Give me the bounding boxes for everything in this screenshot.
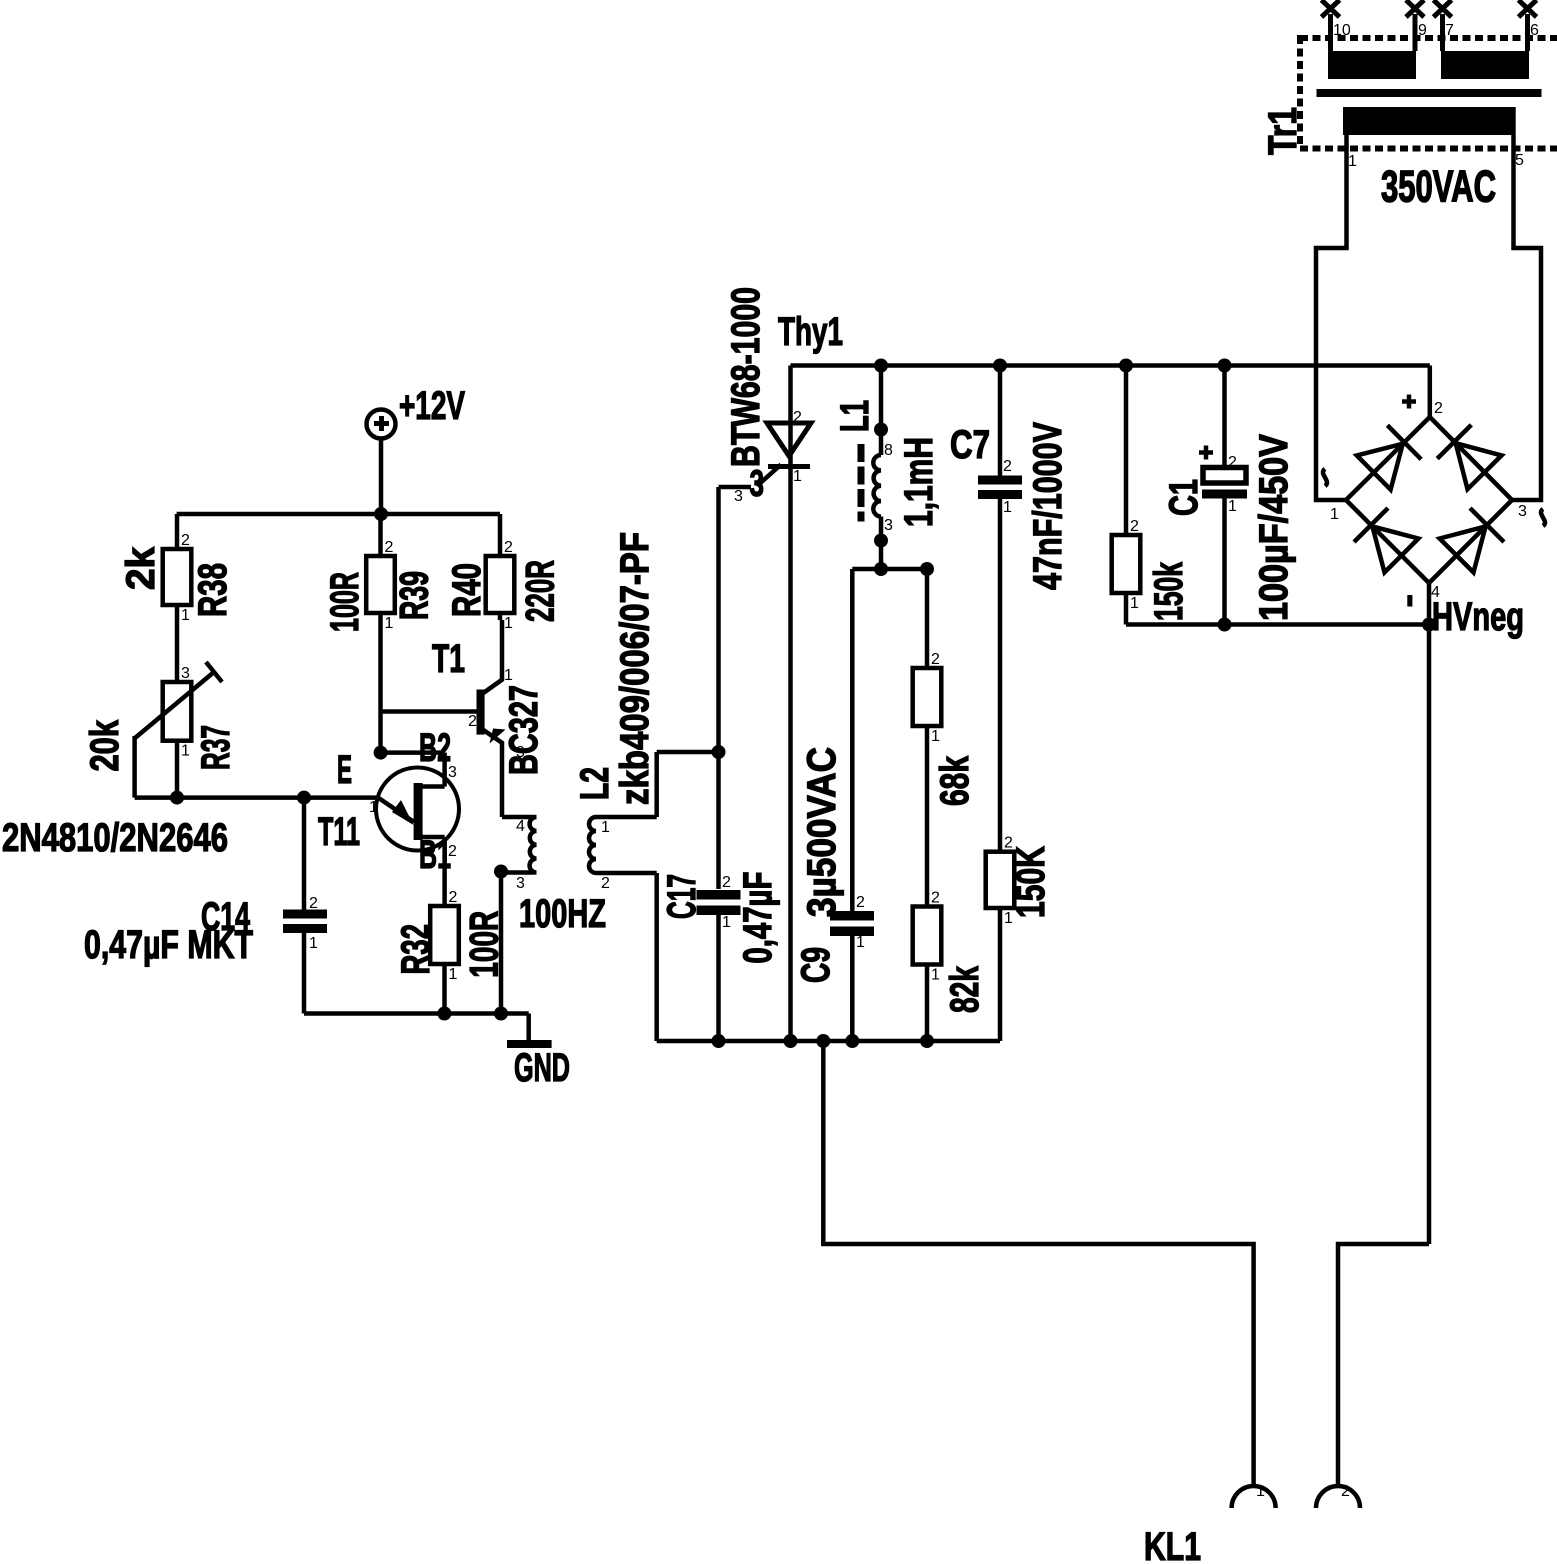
svg-text:3: 3 [884, 517, 893, 534]
svg-text:3: 3 [181, 665, 190, 682]
svg-text:0,47µF: 0,47µF [735, 872, 780, 964]
svg-text:HVneg: HVneg [1432, 594, 1524, 639]
svg-text:KL1: KL1 [1144, 1524, 1201, 1564]
svg-text:1: 1 [369, 799, 378, 816]
svg-text:2N4810/2N2646: 2N4810/2N2646 [2, 815, 228, 860]
svg-text:2: 2 [181, 532, 190, 549]
svg-text:1: 1 [1256, 1483, 1265, 1500]
svg-text:0,47µF MKT: 0,47µF MKT [84, 922, 253, 967]
svg-text:1: 1 [931, 728, 940, 745]
svg-text:C9: C9 [793, 947, 838, 983]
svg-text:2: 2 [601, 875, 610, 892]
svg-text:1: 1 [601, 819, 610, 836]
svg-text:BTW68-1000: BTW68-1000 [723, 287, 768, 467]
svg-text:3: 3 [516, 875, 525, 892]
svg-text:1: 1 [1130, 595, 1139, 612]
svg-text:2: 2 [1003, 458, 1012, 475]
svg-text:10: 10 [1333, 22, 1351, 39]
svg-text:1: 1 [722, 914, 731, 931]
svg-text:1: 1 [309, 935, 318, 952]
svg-text:BC327: BC327 [501, 685, 546, 775]
svg-text:R39: R39 [391, 571, 436, 620]
svg-text:L1: L1 [832, 400, 877, 432]
svg-text:2: 2 [793, 409, 802, 426]
svg-text:82k: 82k [942, 965, 987, 1013]
svg-text:1: 1 [504, 615, 513, 632]
svg-text:Thy1: Thy1 [778, 309, 843, 354]
svg-text:2: 2 [1130, 518, 1139, 535]
svg-text:L2: L2 [572, 767, 617, 800]
svg-text:150k: 150k [1146, 561, 1191, 621]
svg-text:2: 2 [468, 713, 477, 730]
svg-text:R40: R40 [444, 563, 489, 617]
svg-text:1: 1 [181, 743, 190, 760]
svg-text:150K: 150K [1008, 846, 1053, 918]
svg-text:1: 1 [1228, 498, 1237, 515]
svg-text:47nF/1000V: 47nF/1000V [1025, 422, 1070, 590]
svg-text:5: 5 [1515, 152, 1524, 169]
svg-text:3: 3 [516, 744, 525, 761]
svg-text:+12V: +12V [399, 383, 465, 428]
svg-text:1: 1 [1330, 506, 1339, 523]
svg-text:2: 2 [1228, 454, 1237, 471]
svg-text:1: 1 [793, 468, 802, 485]
svg-text:T1: T1 [432, 636, 465, 681]
svg-text:GND: GND [514, 1045, 570, 1090]
svg-text:2k: 2k [118, 546, 163, 590]
svg-text:zkb409/006/07-PF: zkb409/006/07-PF [612, 532, 657, 805]
svg-text:2: 2 [931, 651, 940, 668]
svg-text:1: 1 [504, 667, 513, 684]
svg-text:B2: B2 [419, 725, 451, 770]
svg-text:8: 8 [884, 442, 893, 459]
svg-text:2: 2 [931, 890, 940, 907]
svg-text:R38: R38 [190, 563, 235, 617]
svg-text:R32: R32 [393, 924, 438, 975]
svg-text:3µ500VAC: 3µ500VAC [799, 747, 844, 917]
svg-text:T11: T11 [318, 809, 360, 854]
svg-text:1: 1 [1003, 499, 1012, 516]
svg-text:2: 2 [504, 539, 513, 556]
svg-text:1,1mH: 1,1mH [896, 437, 941, 527]
svg-text:3: 3 [1518, 503, 1527, 520]
svg-text:100R: 100R [322, 572, 367, 632]
svg-text:6: 6 [1530, 22, 1539, 39]
svg-text:2: 2 [449, 889, 458, 906]
svg-text:2: 2 [1434, 400, 1443, 417]
svg-text:2: 2 [448, 843, 457, 860]
svg-text:3: 3 [750, 464, 765, 504]
svg-text:9: 9 [1418, 22, 1427, 39]
svg-text:1: 1 [1348, 153, 1357, 170]
svg-text:220R: 220R [518, 560, 563, 622]
svg-text:2: 2 [309, 895, 318, 912]
svg-text:7: 7 [1445, 22, 1454, 39]
svg-text:3: 3 [448, 764, 457, 781]
svg-text:1: 1 [181, 607, 190, 624]
svg-text:C1: C1 [1161, 479, 1206, 516]
svg-text:R37: R37 [193, 725, 238, 770]
svg-text:Tr1: Tr1 [1260, 107, 1305, 155]
svg-text:C7: C7 [950, 422, 990, 467]
svg-text:2: 2 [1341, 1483, 1350, 1500]
svg-text:1: 1 [856, 934, 865, 951]
svg-text:100HZ: 100HZ [519, 891, 606, 936]
svg-text:E: E [337, 747, 352, 792]
svg-text:68k: 68k [932, 755, 977, 806]
svg-text:B1: B1 [419, 832, 451, 877]
svg-text:20k: 20k [82, 719, 127, 771]
svg-text:2: 2 [385, 539, 394, 556]
svg-text:3: 3 [734, 488, 743, 505]
svg-text:1: 1 [931, 967, 940, 984]
svg-text:4: 4 [516, 818, 525, 835]
svg-text:1: 1 [449, 966, 458, 983]
svg-text:2: 2 [722, 874, 731, 891]
svg-text:100µF/450V: 100µF/450V [1251, 434, 1296, 621]
svg-text:350VAC: 350VAC [1381, 162, 1496, 211]
svg-text:4: 4 [1431, 584, 1440, 601]
svg-text:C17: C17 [659, 874, 704, 919]
svg-text:2: 2 [856, 894, 865, 911]
